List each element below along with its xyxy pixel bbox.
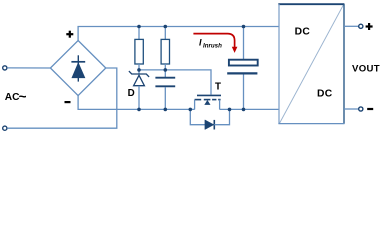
bulk capacitor C2 top plate rectangle bbox=[229, 60, 258, 66]
svg-text:~: ~ bbox=[19, 89, 27, 104]
resistor R2 bottom lead bbox=[164, 64, 166, 70]
AC input terminal top-left bbox=[3, 66, 7, 70]
bypass diode cathode bar bbox=[213, 120, 215, 130]
svg-text:Inrush: Inrush bbox=[203, 43, 222, 50]
minus label of bridge bbox=[65, 101, 71, 103]
output terminal - bbox=[359, 107, 363, 111]
bulk capacitor C2 bottom lead bbox=[243, 75, 245, 110]
resistor R2 top lead bbox=[164, 27, 166, 40]
MOSFET T channel segments bbox=[195, 99, 221, 101]
resistor R1 top lead bbox=[138, 27, 140, 40]
zener diode D triangle bbox=[134, 75, 145, 85]
bypass diode branch wire right bbox=[214, 109, 229, 124]
DC/DC converter U1 box bbox=[279, 4, 344, 124]
MOSFET T source lead bbox=[194, 100, 196, 110]
plus label output bbox=[366, 23, 373, 30]
junction dots top rail bbox=[137, 25, 141, 29]
MOSFET T body arrow bbox=[204, 100, 210, 105]
MOSFET T gate bar bbox=[197, 94, 221, 96]
resistor R1 bbox=[135, 39, 143, 64]
wire AC bottom to bridge right vertex bbox=[7, 68, 117, 128]
bridge rectifier B1 diamond bbox=[50, 41, 105, 96]
capacitor C1 plates bbox=[155, 77, 175, 79]
wire bottom rail from MOSFET drain to DC/DC bbox=[220, 108, 279, 110]
junction dots gate node bbox=[137, 68, 141, 72]
DC/DC box edges bbox=[278, 3, 344, 5]
bypass diode branch wire left bbox=[190, 109, 205, 124]
resistor R1 bottom lead bbox=[138, 64, 140, 70]
bypass diode triangle bbox=[205, 120, 214, 130]
svg-text:DC: DC bbox=[317, 89, 333, 100]
capacitor C1 bottom lead bbox=[164, 87, 166, 109]
svg-text:VOUT: VOUT bbox=[352, 64, 380, 75]
inrush current arrow bbox=[193, 34, 234, 48]
zener diode D bottom lead bbox=[138, 86, 140, 110]
svg-text:D: D bbox=[128, 88, 135, 99]
svg-text:DC: DC bbox=[295, 27, 311, 38]
wire gate node to MOSFET gate bbox=[139, 70, 211, 95]
svg-text:T: T bbox=[215, 82, 221, 93]
minus label output bbox=[367, 108, 373, 110]
wire AC top to bridge left vertex bbox=[7, 67, 50, 69]
bridge diode symbol bbox=[71, 55, 85, 81]
wire bridge - to bottom rail (left part up to MOSFET source) bbox=[78, 96, 195, 110]
zener diode D cathode bar bbox=[129, 71, 149, 77]
output terminal + bbox=[359, 24, 363, 28]
AC input terminal bottom-left bbox=[3, 126, 7, 130]
wire DC/DC to - output bbox=[344, 108, 359, 110]
wire DC/DC to + output bbox=[344, 25, 359, 27]
junction dots bottom rail bbox=[137, 108, 141, 112]
wire bridge + to top rail bbox=[78, 27, 279, 41]
plus label of bridge bbox=[66, 31, 73, 38]
MOSFET T drain lead bbox=[219, 100, 221, 110]
zener diode D top lead bbox=[138, 70, 140, 74]
svg-text:I: I bbox=[199, 38, 202, 48]
bulk capacitor C2 top lead bbox=[243, 27, 245, 60]
bulk capacitor C2 bottom plate bbox=[227, 72, 257, 74]
inrush arrowhead bbox=[232, 47, 238, 53]
DC/DC diagonal bbox=[280, 5, 344, 124]
resistor R2 bbox=[161, 39, 169, 64]
capacitor C1 top lead bbox=[164, 70, 166, 77]
